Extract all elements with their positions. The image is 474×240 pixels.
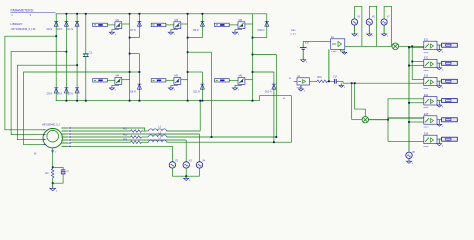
wire multiplier A1 output: [399, 45, 424, 47]
multiplier A1: [392, 43, 399, 50]
wire E15 gnd stub: [438, 120, 440, 125]
capacitor C17: [334, 79, 336, 84]
svg-text:PARAMETERS:: PARAMETERS:: [11, 9, 34, 13]
wire source V3 feed: [185, 140, 187, 162]
wire AC common: [172, 175, 199, 177]
wire rotor line 3: [71, 133, 199, 135]
junction carrier stub: [408, 102, 410, 104]
svg-text:D7 N: D7 N: [130, 29, 136, 32]
comparator block E16: [424, 135, 437, 143]
wire source to ground: [235, 84, 242, 88]
output tap E11: [442, 43, 458, 47]
wire drain to phase column: [122, 79, 130, 81]
node phase 1 upper: [129, 37, 131, 39]
wire drain to phase column: [122, 23, 130, 25]
voltage source V7: [381, 19, 387, 25]
svg-text:R01: R01: [123, 128, 128, 130]
svg-text:M5: M5: [175, 75, 179, 78]
svg-text:4: 4: [442, 87, 443, 89]
wire upper freewheel column 2: [201, 14, 203, 38]
svg-text:LIBRARY:: LIBRARY:: [11, 22, 24, 26]
svg-text:w: w: [289, 77, 291, 80]
wire drain to phase column: [245, 23, 253, 25]
junction RC top: [52, 166, 54, 168]
node tap on column 1: [55, 35, 57, 37]
resistor Rd: [52, 167, 54, 169]
wire cap branch top: [53, 167, 63, 169]
junction line4 riser a: [211, 136, 213, 138]
wire top DC rail: [56, 13, 267, 15]
wire phase to lower diode: [253, 71, 274, 73]
wire V7 gnd stub: [383, 25, 385, 34]
gate driver source V4 (upper cell 3): [215, 23, 230, 26]
diode D1 (bridge top): [75, 20, 79, 22]
ground E1: [342, 52, 347, 54]
capacitor C4: [61, 169, 66, 171]
wire V6 loop: [369, 6, 376, 46]
comparator block E15: [424, 116, 437, 124]
wire E13 output: [437, 80, 442, 82]
wire bus stub row3: [412, 79, 424, 81]
wire phase middle branch: [188, 51, 212, 53]
node phase 3 upper: [252, 37, 254, 39]
svg-text:4: 4: [442, 69, 443, 71]
voltage source V5: [351, 19, 357, 25]
junction carrier stub: [408, 121, 410, 123]
wire C17 out / row3 net: [336, 80, 343, 82]
wire phase column 2: [187, 14, 189, 101]
wire E16 gnd stub: [438, 139, 440, 144]
ground G1: [298, 89, 303, 91]
wire E1 ground stub: [340, 49, 344, 52]
junction column 3 bottom rail: [76, 100, 78, 102]
output tap E12: [442, 61, 458, 65]
wire gate: [166, 79, 174, 81]
svg-text:4: 4: [412, 163, 413, 165]
svg-text:4: 4: [189, 180, 190, 182]
svg-text:M2: M2: [175, 19, 179, 22]
node phase 2 lower: [187, 71, 189, 73]
svg-text:E13: E13: [424, 76, 429, 78]
output tap E14: [442, 99, 458, 103]
wire bus stub row2: [412, 61, 424, 63]
svg-text:4: 4: [442, 51, 443, 53]
junction upper freewheel top rail: [139, 13, 141, 15]
wire stator line 1: [71, 128, 145, 131]
node phase 2 upper: [187, 37, 189, 39]
svg-text:4: 4: [115, 34, 116, 36]
gate driver source V6 (lower cell 2): [151, 79, 166, 82]
wire E14 output: [437, 99, 442, 101]
voltage source V8: [406, 152, 412, 158]
resistor R02: [131, 136, 142, 139]
wire gate: [107, 79, 115, 81]
junction column 2 bottom rail: [66, 100, 68, 102]
wire phase to lower diode: [130, 71, 140, 73]
junction carrier stub: [408, 47, 410, 49]
wire mult2 in: [352, 119, 362, 121]
transistor M3: [238, 22, 245, 29]
wire V6 gnd stub: [368, 25, 370, 34]
svg-text:4: 4: [387, 36, 388, 38]
behavioral source G1: [294, 81, 298, 83]
junction AC common: [185, 175, 187, 177]
svg-text:-WF19904/E_5_f: -WF19904/E_5_f: [42, 123, 60, 126]
wire carrier bus: [408, 47, 410, 151]
transistor M6: [238, 78, 245, 85]
wire phase column 3: [252, 14, 254, 101]
wire row6 feed: [388, 140, 424, 142]
wire V2 to common: [171, 168, 173, 176]
wire source to ground: [112, 29, 119, 33]
svg-text:4: 4: [372, 36, 373, 38]
node phase 1 middle: [129, 53, 131, 55]
ground gate return: [232, 32, 237, 34]
wire V5 loop: [355, 6, 362, 46]
wire source to ground: [235, 29, 242, 33]
wire rotor line 5: [71, 139, 186, 141]
node phase 3 middle: [252, 54, 254, 56]
wire G1 out: [310, 80, 318, 82]
svg-text:R16: R16: [318, 77, 323, 79]
junction phase column 2 bottom rail: [187, 100, 189, 102]
transistor M1: [115, 22, 122, 29]
ground E13: [437, 86, 442, 88]
wire right drop of bottom rail: [291, 96, 293, 143]
svg-text:D2 N: D2 N: [68, 92, 74, 95]
ground E16: [437, 144, 442, 146]
junction line4 riser b: [275, 136, 277, 138]
wire carrier stub: [409, 121, 424, 123]
wire bottom DC rail: [56, 100, 260, 102]
diode D8 (lower freewheel): [137, 83, 141, 85]
wire carrier stub: [409, 102, 424, 104]
ground gate return: [232, 88, 237, 90]
wire mult2 feed b: [355, 83, 366, 116]
node tap on column 2: [66, 51, 68, 53]
svg-text:E12: E12: [424, 58, 429, 60]
wire machine feed net 1: [5, 36, 56, 130]
wire E15 output: [437, 119, 442, 121]
svg-text:V10: V10: [305, 42, 310, 44]
wire cap branch bottom: [53, 174, 63, 183]
machine subcircuit symbol: [43, 129, 62, 148]
wire carrier stub: [409, 46, 424, 48]
svg-text:E14: E14: [424, 95, 429, 97]
ground gate return: [109, 32, 114, 34]
node phase 1 lower: [129, 71, 131, 73]
wire E16 output: [437, 138, 442, 140]
wire phase to upper diode: [188, 37, 203, 39]
wire E11 gnd stub: [438, 45, 440, 50]
svg-text:wave: wave: [424, 88, 430, 90]
svg-text:M6: M6: [239, 75, 243, 78]
wire lower freewheel column 2: [201, 72, 203, 101]
svg-text:M3: M3: [239, 19, 243, 22]
wire source to ground: [171, 29, 178, 33]
svg-text:D10 N: D10 N: [258, 29, 265, 32]
junction mult2 node: [387, 119, 389, 121]
ground gate return: [168, 88, 173, 90]
wire signal bus: [411, 46, 413, 79]
capacitor C1: [83, 53, 89, 55]
wire gate: [229, 79, 238, 81]
ground E12: [437, 68, 442, 70]
wire upper freewheel column 1: [138, 14, 140, 38]
voltage source V4: [196, 162, 202, 168]
transistor M5: [174, 78, 181, 85]
output tap E13: [442, 79, 458, 83]
voltage source V3: [183, 162, 189, 168]
wire V3 to common: [185, 168, 187, 176]
diode D9 (upper freewheel): [200, 20, 204, 22]
svg-text:D6 N: D6 N: [47, 28, 53, 31]
svg-text:D8 N: D8 N: [130, 90, 136, 93]
svg-text:E15: E15: [424, 114, 429, 116]
junction lower freewheel bottom rail: [202, 100, 204, 102]
junction phase column 2 top rail: [187, 13, 189, 15]
wire V4 to common: [199, 168, 201, 176]
wire rectifier column 3: [76, 14, 78, 101]
svg-text:wave: wave: [424, 70, 430, 72]
svg-text:4: 4: [357, 36, 358, 38]
wire source to ground: [171, 84, 178, 88]
wire phase to lower diode: [188, 71, 203, 73]
wire rectifier column 2: [65, 14, 67, 101]
wire machine feed net 2: [11, 52, 66, 135]
wire source to ground: [112, 84, 119, 88]
svg-text:4: 4: [115, 90, 116, 92]
wire E1 output to multiplier: [345, 45, 392, 47]
output tap E16: [442, 137, 458, 141]
wire C17 gnd stub: [340, 83, 342, 85]
diode D6 (bridge top): [54, 20, 58, 22]
text parameters underline: [11, 11, 56, 13]
transistor M4: [115, 78, 122, 85]
svg-text:wave: wave: [424, 107, 430, 109]
diode D7 (upper freewheel): [137, 20, 141, 22]
svg-text:D11 N: D11 N: [193, 90, 200, 93]
junction cap column top: [85, 13, 87, 15]
svg-text:4: 4: [238, 90, 239, 92]
svg-text:D3 N: D3 N: [57, 92, 63, 95]
wire V10 to E1: [303, 41, 330, 44]
diode D3 (bridge bottom): [64, 87, 68, 89]
wire G1 ground stub: [300, 85, 302, 89]
wire phase column 1: [129, 14, 131, 101]
svg-text:0 .5 0: 0 .5 0: [291, 33, 297, 35]
comparator block E11: [424, 41, 437, 49]
svg-text:D1 N: D1 N: [68, 28, 74, 31]
transistor M2: [174, 22, 181, 29]
svg-text:D4 N: D4 N: [57, 28, 63, 31]
ground E15: [437, 124, 442, 126]
junction line6 riser: [273, 141, 275, 143]
voltage source V10 (battery): [302, 44, 304, 47]
junction mult1 bus: [411, 45, 413, 47]
svg-text:4: 4: [442, 126, 443, 128]
svg-text:4: 4: [306, 62, 307, 64]
svg-text:wave: wave: [424, 146, 430, 148]
wire mult2 riser: [387, 99, 389, 142]
junction upper freewheel top rail: [202, 13, 204, 15]
svg-text:4: 4: [304, 91, 305, 93]
node phase 2 middle: [187, 51, 189, 53]
junction cap column bottom: [85, 100, 87, 102]
wire phase to upper diode: [130, 37, 140, 39]
wire gate: [166, 24, 174, 26]
ground V6: [367, 34, 372, 36]
inductor L1: [149, 129, 167, 131]
wire E13 gnd stub: [438, 81, 440, 86]
machine right pins: [62, 127, 69, 129]
svg-text:4: 4: [56, 190, 57, 192]
diode D12 (lower freewheel): [272, 83, 276, 85]
ground gate return: [109, 88, 114, 90]
junction lower freewheel mid: [139, 71, 141, 73]
svg-text:M4: M4: [116, 75, 120, 78]
svg-text:M1: M1: [116, 19, 120, 22]
gate driver source V7 (lower cell 3): [215, 79, 230, 82]
ground C17: [339, 85, 344, 87]
wire phase to upper diode: [253, 37, 267, 39]
wire source V4 feed: [199, 134, 201, 162]
wire machine feed net 3: [17, 65, 77, 140]
multiplier A2: [362, 117, 368, 123]
svg-text:4: 4: [174, 90, 175, 92]
junction lower freewheel bottom rail: [139, 100, 141, 102]
svg-text:4: 4: [238, 34, 239, 36]
junction E1 feedback: [328, 80, 330, 82]
sense tap W1: [51, 150, 54, 152]
wire V8 gnd stub: [408, 159, 410, 162]
wire E1 feedback column: [328, 49, 330, 81]
svg-text:C17: C17: [333, 77, 338, 79]
junction phase column 1 top rail: [129, 13, 131, 15]
wire V5 gnd stub: [354, 25, 356, 34]
node tap on column 3: [76, 64, 78, 66]
junction RC bottom: [52, 182, 54, 184]
wire row4 feed: [388, 98, 424, 100]
wire phase middle branch: [253, 54, 277, 56]
wire gate: [229, 24, 238, 26]
wire lower freewheel column 3: [273, 72, 275, 142]
ground gate return: [168, 32, 173, 34]
wire E11 output: [437, 44, 442, 46]
behavioral source E1: [331, 39, 345, 50]
diode D5 (bridge bottom): [54, 87, 58, 89]
wire E12 gnd stub: [438, 63, 440, 68]
svg-text:a-abs: a-abs: [331, 51, 337, 53]
svg-text:4: 4: [174, 34, 175, 36]
junction column 3 top rail: [76, 13, 78, 15]
ground E14: [437, 105, 442, 107]
gate driver source V5 (lower cell 1): [93, 79, 108, 82]
svg-text:4: 4: [442, 107, 443, 109]
resistor R01: [131, 130, 142, 133]
wire DC link column: [85, 14, 87, 54]
wire lower freewheel column 1: [138, 54, 140, 101]
inductor L2: [149, 135, 167, 137]
junction phase column 1 bottom rail: [129, 100, 131, 102]
ground machine RC: [52, 183, 54, 188]
svg-text:4: 4: [344, 87, 345, 89]
ground V10: [301, 60, 306, 62]
ground V5: [352, 34, 357, 36]
wire drain to phase column: [181, 79, 188, 81]
svg-text:D12 N: D12 N: [265, 90, 272, 93]
svg-text:-tran: -tran: [291, 29, 297, 32]
voltage source V6: [366, 19, 372, 25]
wire line 7 to source V2: [71, 146, 172, 161]
machine left pins: [43, 129, 46, 131]
junction bus row2: [411, 61, 413, 63]
wire R16 to C17: [328, 80, 335, 82]
wire machine shaft node: [52, 148, 54, 167]
svg-text:D9 N: D9 N: [193, 29, 199, 32]
diode D2 (bridge bottom): [75, 87, 79, 89]
ground AC common: [185, 176, 187, 178]
wire drain to phase column: [181, 23, 188, 25]
wire gate: [107, 24, 115, 26]
wire phase middle branch: [130, 53, 140, 55]
wire stator line 2 (row 1): [71, 130, 130, 132]
comparator block E12: [424, 59, 437, 67]
wire stator line 6 (row 3): [71, 141, 130, 143]
svg-text:4: 4: [442, 145, 443, 147]
ground V8: [406, 161, 411, 163]
ground V7: [382, 34, 387, 36]
wire carrier stub: [409, 65, 424, 67]
junction mult2 feed b: [354, 82, 356, 84]
diode D11 (lower freewheel): [200, 83, 204, 85]
wire bottom rail jog up: [260, 96, 292, 101]
junction carrier stub: [408, 65, 410, 67]
wire mult2 output: [369, 118, 424, 120]
inductor L3: [149, 140, 167, 142]
svg-text:R03: R03: [123, 140, 128, 142]
ground E11: [437, 50, 442, 52]
svg-text:wave: wave: [424, 52, 430, 54]
wire upper freewheel column 3: [266, 14, 268, 38]
svg-text:wave: wave: [424, 126, 430, 128]
comparator block E14: [424, 97, 437, 105]
wire stator line 4 (row 2): [71, 136, 130, 138]
wire drain to phase column: [245, 79, 253, 81]
wire E14 gnd stub: [438, 100, 440, 105]
diode D4 (bridge top): [64, 20, 68, 22]
wire machine feed net 4: [24, 72, 130, 145]
wire row1 riser to rail: [199, 101, 201, 131]
gate driver source V3 (upper cell 2): [151, 23, 166, 26]
junction phase column 3 bottom rail: [252, 100, 254, 102]
wire E12 output: [437, 62, 442, 64]
wire rectifier column 1: [55, 14, 57, 101]
junction column 2 top rail: [66, 13, 68, 15]
gate driver source V2 (upper cell 1): [93, 23, 108, 26]
svg-text:-9471WE3435_5_f.lib: -9471WE3435_5_f.lib: [11, 27, 37, 31]
diode D10 (upper freewheel): [265, 20, 269, 22]
junction row1 riser rail: [199, 100, 201, 102]
svg-text:R02: R02: [123, 134, 128, 136]
wire riser phase 2 to line4: [211, 52, 213, 137]
resistor R16: [317, 80, 328, 83]
voltage source V2: [169, 162, 175, 168]
node phase 3 lower: [252, 71, 254, 73]
resistor R03: [131, 141, 142, 144]
wire mult2 feed a: [351, 83, 353, 120]
junction row3 net mult2 feed: [351, 82, 353, 84]
